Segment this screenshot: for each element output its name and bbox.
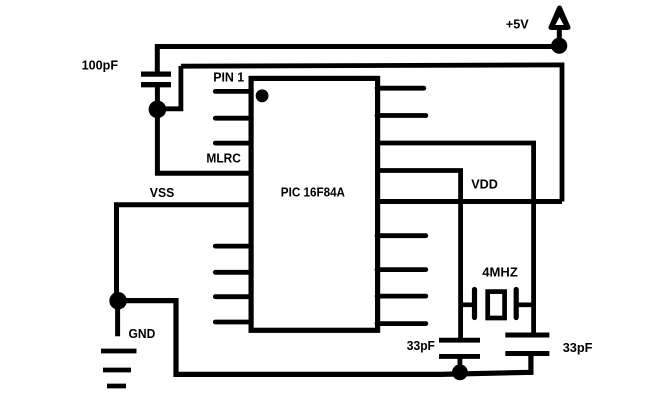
wire: OSC1 row to crystal left: [375, 171, 461, 341]
IC U1 PIC 16F84A body: [251, 78, 378, 330]
wire: junction down to MCLR pin: [157, 107, 253, 173]
svg-text:PIN 1: PIN 1: [213, 69, 244, 84]
svg-text:VDD: VDD: [471, 176, 498, 191]
crystal X1 4MHZ: [461, 290, 535, 319]
svg-text:100pF: 100pF: [82, 58, 119, 73]
pin: right bottom 2: [377, 267, 426, 272]
wire: VSS row to GND: [117, 205, 254, 300]
pin: left bottom 4: [215, 320, 251, 325]
power symbol +5V arrow: [551, 8, 568, 42]
pin: left top 2: [215, 116, 251, 121]
svg-text:GND: GND: [129, 326, 156, 341]
pin: left bottom 1: [215, 244, 251, 249]
capacitor C1 100pF: [141, 74, 171, 104]
ground symbol: [101, 351, 137, 386]
node: +5V rail junction dot: [551, 38, 567, 54]
pin: left top 3: [215, 141, 251, 146]
svg-text:33pF: 33pF: [563, 340, 593, 355]
svg-text:33pF: 33pF: [407, 338, 435, 353]
capacitor C2 33pF left: [439, 340, 480, 372]
node: GND junction dot: [109, 292, 127, 310]
pin: left bottom 2: [215, 270, 251, 275]
pin: right top 1: [377, 86, 424, 91]
wire: second +5V feed to VDD: [181, 65, 562, 202]
wire: GND node to bottom rail: [118, 301, 531, 375]
wire: +5V rail to 100pF top: [157, 47, 559, 75]
capacitor C3 33pF right: [505, 335, 549, 354]
svg-text:PIC 16F84A: PIC 16F84A: [281, 184, 346, 199]
wire: GND lead: [115, 301, 120, 337]
svg-text:VSS: VSS: [150, 185, 175, 200]
wire: junction to riser: [158, 66, 181, 109]
pin 1 marker dot: [256, 89, 269, 102]
svg-text:MLRC: MLRC: [206, 151, 241, 166]
pin: right top 2: [377, 113, 426, 118]
svg-text:4MHZ: 4MHZ: [482, 264, 518, 279]
pin: left top 1: [215, 89, 251, 94]
wire: VDD row: [375, 199, 562, 204]
pin: right bottom 4: [377, 321, 426, 326]
node: caps ground junction dot: [452, 364, 468, 380]
pin: right bottom 1: [377, 233, 426, 238]
wire: OSC2 row to crystal right: [375, 143, 534, 335]
svg-text:+5V: +5V: [506, 17, 529, 32]
pin: left bottom 3: [215, 294, 251, 299]
node: MCLR/cap junction dot: [149, 101, 167, 119]
pin: right bottom 3: [377, 294, 426, 299]
